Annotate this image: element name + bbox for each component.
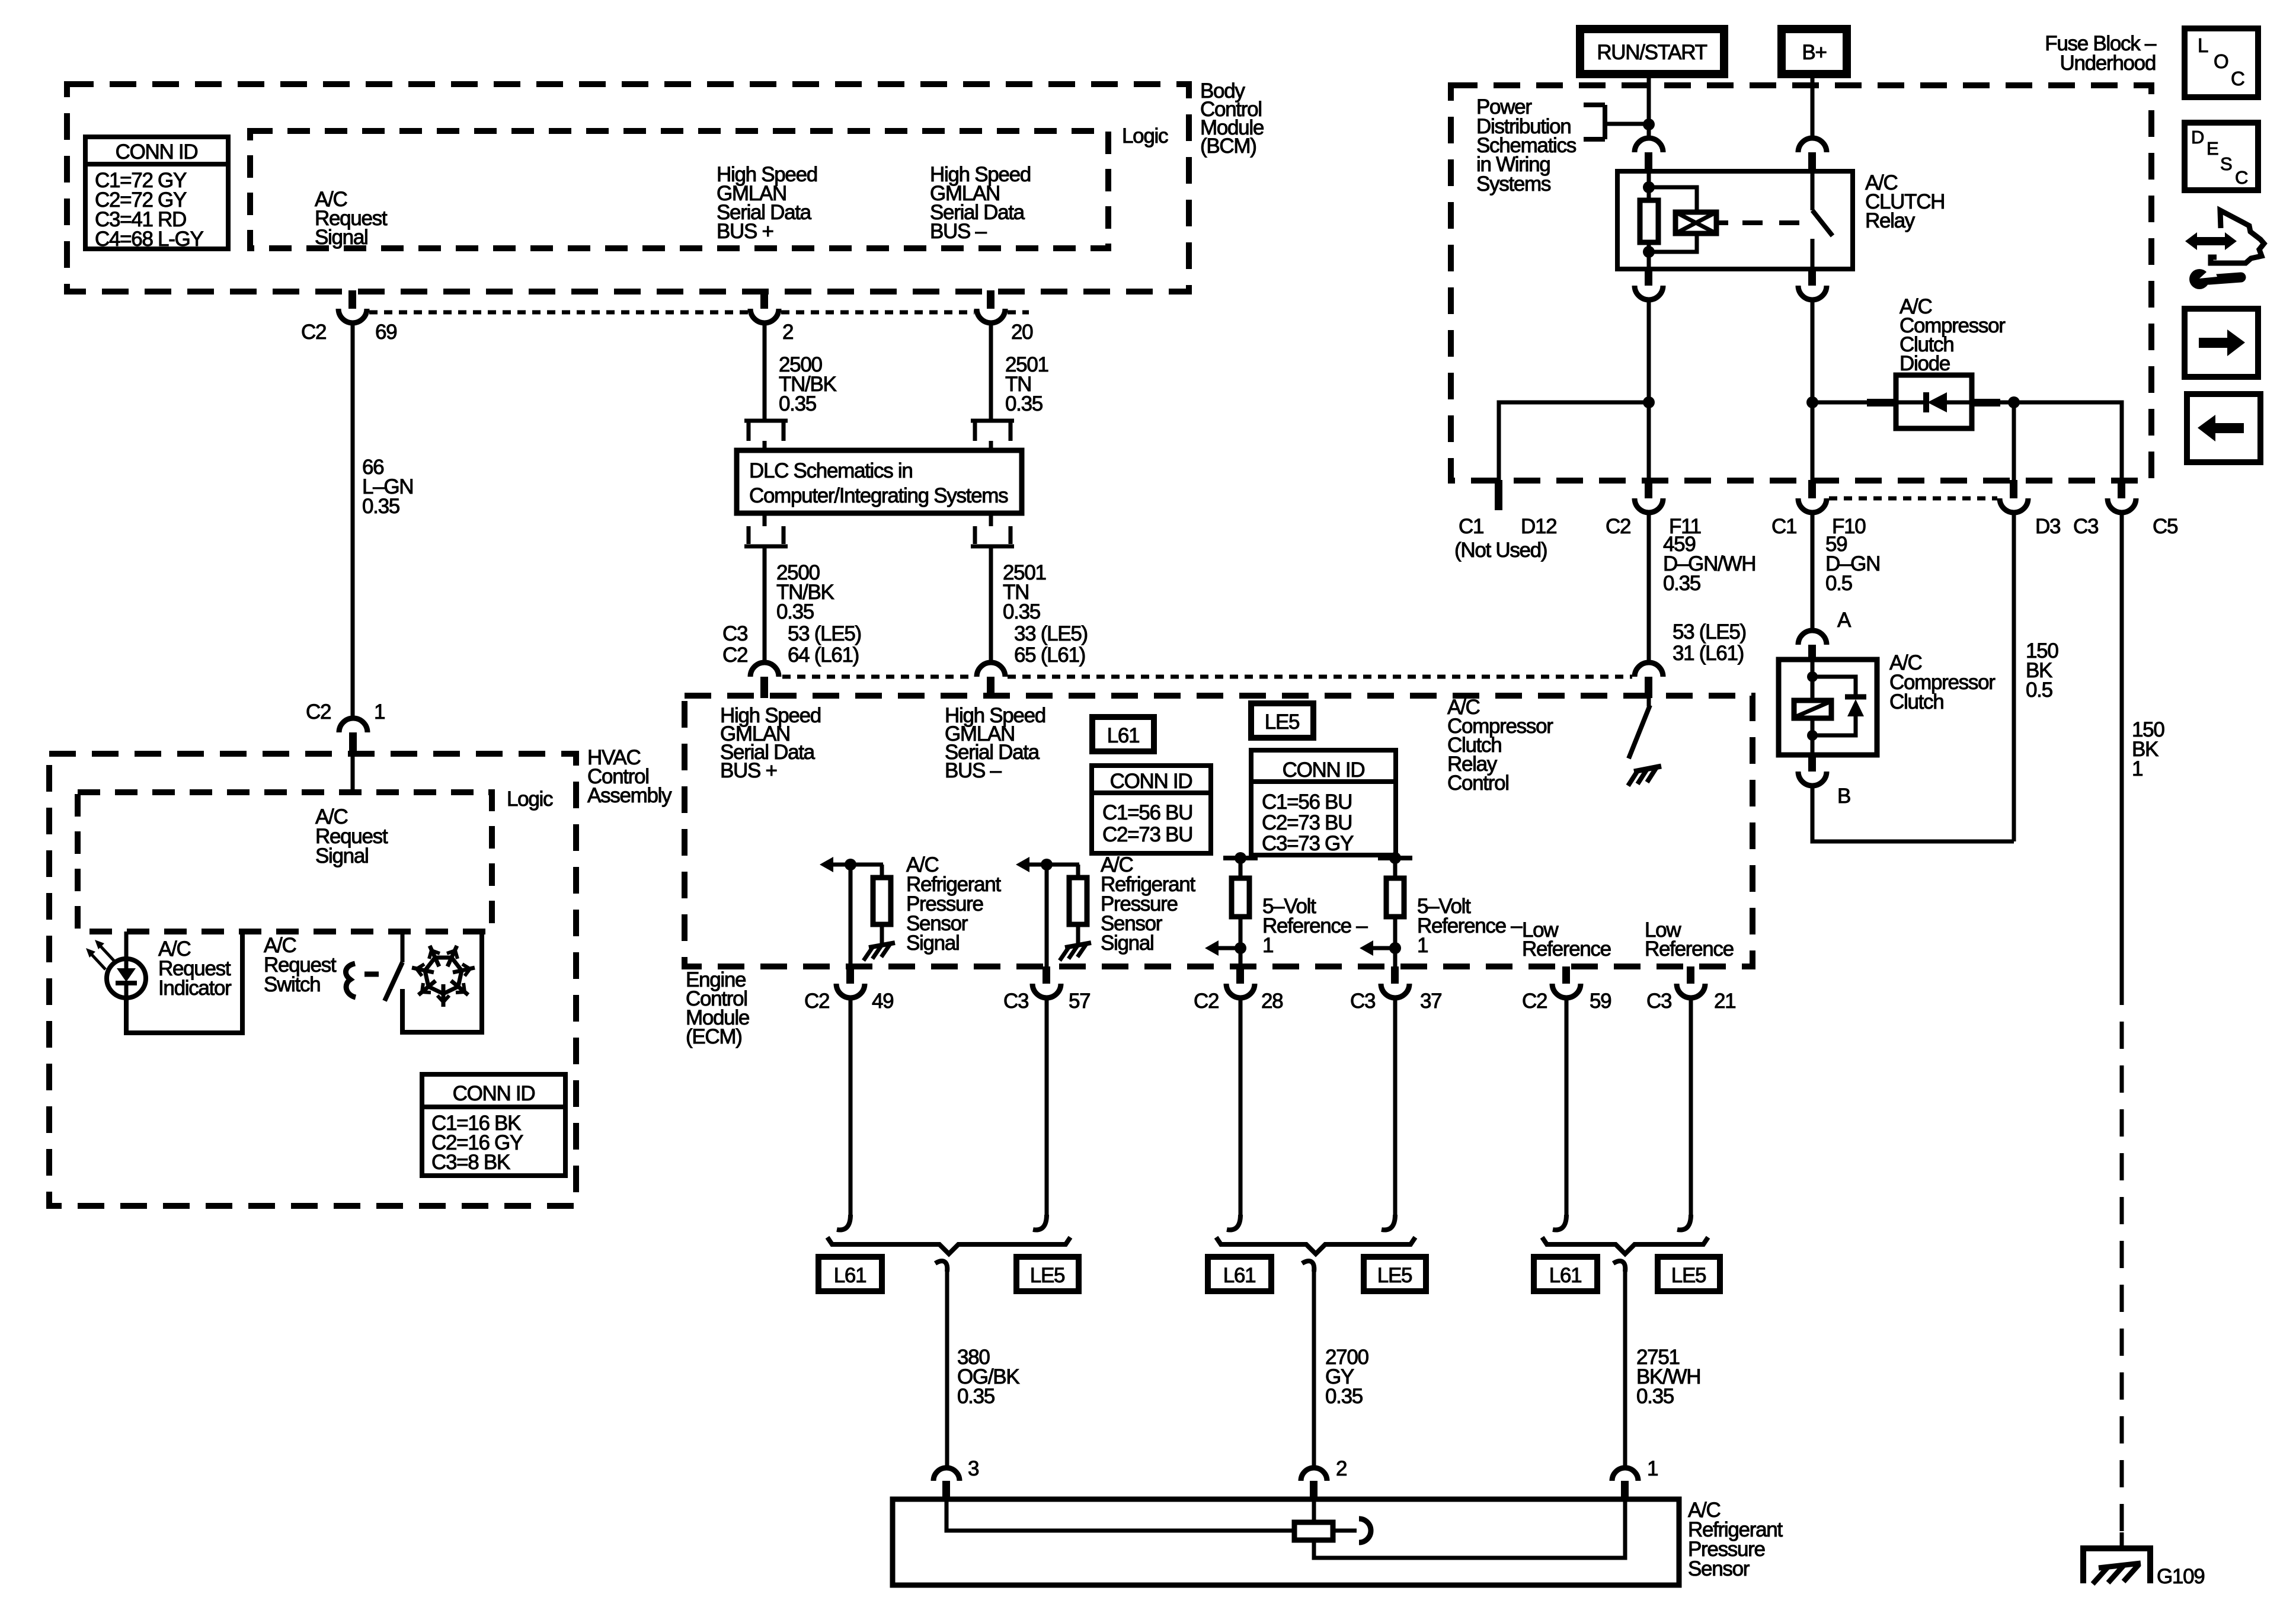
connector ECM BUS+ — [750, 662, 779, 698]
wire pin 57 — [1045, 865, 1049, 968]
connector HVAC C2-1 — [339, 718, 367, 754]
svg-text:Underhood: Underhood — [2060, 52, 2156, 75]
svg-text:53 (LE5): 53 (LE5) — [1673, 620, 1746, 644]
wire from pin 37 — [1382, 998, 1395, 1230]
svg-text:CONN ID: CONN ID — [1110, 770, 1192, 793]
svg-text:1: 1 — [1417, 934, 1428, 957]
svg-text:L61: L61 — [1223, 1264, 1256, 1287]
connector relay switch pin (bottom) — [1798, 269, 1827, 300]
connector relay switch pin (top) — [1798, 138, 1827, 172]
pin label C2 28 — [1194, 990, 1283, 1013]
relay switch fixed contact (bottom) — [1811, 239, 1815, 269]
svg-text:BUS +: BUS + — [717, 220, 773, 243]
wire 380 OG/BK merged — [935, 1261, 947, 1468]
node 5-Volt Reference 1 (pin 37) — [1417, 895, 1523, 957]
svg-text:Indicator: Indicator — [158, 977, 232, 1000]
wire clutch B return — [1812, 786, 2014, 841]
svg-text:C3=8 BK: C3=8 BK — [431, 1151, 510, 1174]
snowflake icon — [412, 946, 475, 1007]
label A/C Compressor Clutch — [1889, 651, 1996, 713]
CONN ID table (LE5) — [1251, 750, 1396, 855]
svg-text:(BCM): (BCM) — [1200, 135, 1256, 158]
svg-text:Reference –: Reference – — [1262, 914, 1368, 937]
ground comb (relay control) — [1628, 766, 1661, 786]
label A/C Request Indicator — [158, 937, 232, 1000]
label Fuse Block - Underhood — [2045, 32, 2157, 75]
wire from pin 49 — [837, 998, 850, 1230]
connector sensor pin 3 — [933, 1468, 960, 1500]
svg-text:Relay: Relay — [1865, 209, 1916, 232]
label Logic (BCM) — [1122, 124, 1168, 148]
switch fixed contact — [401, 932, 405, 962]
indicator return path — [126, 932, 242, 1033]
pin label C3 57 — [1003, 990, 1090, 1013]
icon box arrow right — [2185, 309, 2258, 377]
ECM relay control switch — [1629, 698, 1650, 758]
svg-text:Logic: Logic — [507, 788, 553, 811]
wire 150 BK 0.5 (D3 to clutch B) — [2012, 513, 2016, 841]
svg-text:Computer/Integrating Systems: Computer/Integrating Systems — [749, 484, 1008, 507]
inline connector bracket (below DLC, right) — [971, 513, 1014, 546]
svg-text:0.35: 0.35 — [957, 1385, 994, 1408]
junction diode branch — [1806, 396, 1818, 408]
node 5-Volt Reference 1 (pin 28) — [1262, 895, 1368, 957]
connector sensor pin 1 — [1612, 1468, 1638, 1500]
svg-text:C1=56 BU: C1=56 BU — [1262, 790, 1352, 814]
signal arrow (pin 49) — [820, 857, 883, 872]
svg-text:20: 20 — [1011, 321, 1033, 344]
logic box (HVAC inner dashed) — [78, 792, 492, 932]
inline connector bracket (above DLC, right) — [971, 421, 1014, 452]
svg-text:D12: D12 — [1521, 515, 1556, 538]
connector sensor pin 2 — [1301, 1468, 1327, 1500]
node A/C Request Signal (HVAC) — [315, 805, 388, 868]
wire label 2500 TN/BK 0.35 (lower) — [776, 561, 834, 623]
svg-text:C: C — [2231, 68, 2245, 89]
svg-text:C4=68 L-GY: C4=68 L-GY — [95, 228, 203, 251]
label A/C Request Switch — [264, 934, 337, 996]
resistor to ground (pin 57) — [1069, 865, 1087, 945]
svg-text:0.5: 0.5 — [1825, 572, 1852, 595]
wire 59 D-GN F10 to clutch A — [1811, 513, 1815, 630]
pin label A — [1837, 609, 1851, 632]
svg-text:C3: C3 — [722, 622, 747, 645]
engine tag LE5 (group 3) — [1658, 1257, 1720, 1291]
label A/C Compressor Clutch Diode — [1900, 295, 2006, 375]
svg-text:Signal: Signal — [906, 932, 960, 955]
junction relay coil bottom — [1643, 246, 1655, 258]
wire 2500 DLC to ECM — [763, 546, 767, 662]
wire 459 D-GN/WH F11 to ECM — [1647, 513, 1651, 662]
icon box arrow left — [2187, 394, 2260, 462]
wire clutch coil bottom — [1811, 718, 1815, 755]
svg-text:0.35: 0.35 — [1636, 1385, 1674, 1408]
svg-text:Switch: Switch — [264, 973, 320, 996]
power feed box B+ — [1782, 29, 1847, 74]
module box Fuse Block - Underhood (dashed) — [1451, 85, 2151, 481]
node Low Reference (pin 59) — [1522, 918, 1611, 961]
svg-text:Diode: Diode — [1900, 352, 1950, 375]
pin label 65 (L61) — [1014, 644, 1085, 667]
connector pin F10 — [1798, 480, 1827, 513]
engine tag L61 — [1092, 717, 1154, 751]
svg-text:Clutch: Clutch — [1889, 690, 1943, 713]
svg-text:C5: C5 — [2153, 515, 2177, 538]
switch arm A/C Request Switch — [385, 962, 402, 1001]
connector ECM relay control — [1635, 662, 1663, 698]
svg-text:1: 1 — [2132, 757, 2142, 780]
svg-text:DLC Schematics in: DLC Schematics in — [749, 459, 913, 482]
label HVAC Control Assembly — [587, 746, 672, 807]
wire label 2751 BK/WH 0.35 — [1636, 1346, 1700, 1408]
connector pin D12 (not used) — [1495, 480, 1502, 510]
svg-text:D: D — [2191, 127, 2204, 148]
node A/C Refrigerant Pressure Sensor Signal (pin 57) — [1101, 853, 1195, 955]
wire RUN/START feed — [1647, 74, 1651, 139]
svg-text:Systems: Systems — [1476, 172, 1551, 196]
wire label 150 BK 1 — [2132, 718, 2164, 780]
node A/C Refrigerant Pressure Sensor Signal (pin 49) — [906, 853, 1001, 955]
svg-text:CONN ID: CONN ID — [1283, 758, 1365, 782]
wire to D3 — [2012, 402, 2016, 480]
svg-text:0.5: 0.5 — [2026, 678, 2052, 702]
connector pin D3 — [2000, 480, 2028, 513]
wire BUS- BCM to DLC — [989, 323, 993, 421]
wire from pin 57 — [1033, 998, 1047, 1230]
svg-text:28: 28 — [1261, 990, 1283, 1013]
svg-text:D3: D3 — [2035, 515, 2060, 538]
svg-text:LE5: LE5 — [1377, 1264, 1412, 1287]
LED A/C Request Indicator — [107, 959, 146, 998]
sensor pressure port — [1333, 1519, 1371, 1542]
reference arrow (pin 37) — [1360, 940, 1401, 956]
wire 2501 DLC to ECM — [989, 546, 993, 662]
svg-text:59: 59 — [1590, 990, 1611, 1013]
junction D12 branch — [1643, 396, 1655, 408]
wire label 380 OG/BK 0.35 — [957, 1346, 1019, 1408]
connector pin C5 — [2108, 480, 2136, 513]
wire 2751 BK/WH merged — [1613, 1261, 1625, 1468]
splice brace (59/21) — [1542, 1237, 1708, 1254]
wire label 2501 TN 0.35 (lower) — [1003, 561, 1046, 623]
svg-text:C2=73 BU: C2=73 BU — [1262, 811, 1352, 834]
label Power Distribution Schematics in Wiring Systems — [1476, 95, 1576, 196]
node High Speed GMLAN Serial Data BUS + (ECM) — [720, 704, 821, 782]
wire label 66 L-GN 0.35 — [362, 456, 413, 518]
label A/C Refrigerant Pressure Sensor — [1688, 1499, 1783, 1580]
relay actuator dashed link — [1716, 220, 1803, 225]
connector relay coil pin (top) — [1635, 138, 1663, 172]
svg-text:C3: C3 — [1003, 990, 1028, 1013]
svg-text:31 (L61): 31 (L61) — [1673, 642, 1744, 665]
svg-text:BUS –: BUS – — [945, 759, 1002, 782]
svg-text:RUN/START: RUN/START — [1597, 41, 1707, 64]
junction D3/C5 — [2008, 396, 2020, 408]
svg-text:0.35: 0.35 — [1325, 1385, 1363, 1408]
wire label 2500 TN/BK 0.35 (upper) — [779, 353, 837, 415]
connector rail ECM row (dotted) — [782, 675, 1632, 679]
pin label C2 64 (L61) — [722, 644, 859, 667]
connector pin ECM 28 — [1226, 966, 1255, 998]
node High Speed GMLAN Serial Data BUS - (BCM) — [930, 163, 1031, 243]
wire label 59 D-GN 0.5 — [1825, 533, 1880, 595]
pin label C2 F11 — [1606, 515, 1701, 538]
inline connector bracket (above DLC, left) — [744, 421, 788, 452]
ground comb (pin 57) — [1060, 943, 1091, 961]
svg-text:BUS –: BUS – — [930, 220, 987, 243]
DLC Schematics box — [737, 450, 1022, 513]
svg-text:Signal: Signal — [1101, 932, 1154, 955]
wire to C5 — [2014, 402, 2122, 480]
svg-text:2: 2 — [1336, 1457, 1347, 1480]
svg-text:L61: L61 — [1549, 1264, 1582, 1287]
wire clutch coil top — [1811, 660, 1815, 700]
engine tag L61 (group 3) — [1534, 1257, 1597, 1291]
wire coil branch bottom — [1649, 233, 1697, 252]
engine tag LE5 — [1251, 703, 1313, 738]
svg-text:0.35: 0.35 — [1663, 572, 1700, 595]
relay box A/C CLUTCH Relay — [1617, 171, 1853, 269]
svg-text:0.35: 0.35 — [779, 392, 816, 415]
engine tag LE5 (group 2) — [1364, 1257, 1426, 1291]
resistor (pin 37) — [1386, 858, 1404, 948]
svg-text:2: 2 — [782, 321, 793, 344]
svg-text:LE5: LE5 — [1671, 1264, 1706, 1287]
pin label 20 — [1011, 321, 1033, 344]
wire diode output — [1972, 399, 2014, 406]
engine tag L61 (group 1) — [818, 1257, 882, 1291]
junction clutch coil top — [1807, 671, 1818, 682]
component box A/C Compressor Clutch — [1779, 660, 1877, 755]
svg-text:C3: C3 — [2073, 515, 2098, 538]
pin label C2 69 — [301, 321, 396, 344]
svg-text:0.35: 0.35 — [362, 495, 399, 518]
svg-text:BUS +: BUS + — [720, 759, 777, 782]
svg-text:(ECM): (ECM) — [686, 1025, 742, 1048]
svg-text:0.35: 0.35 — [1005, 392, 1043, 415]
resistor (pin 28) — [1232, 858, 1249, 948]
pin label 2 — [1336, 1457, 1347, 1480]
svg-text:C2: C2 — [722, 644, 747, 667]
pin label D3 C3 — [2035, 515, 2098, 538]
pin label 33 (LE5) — [1014, 622, 1088, 645]
svg-text:21: 21 — [1714, 990, 1735, 1013]
pin label 3 — [968, 1457, 978, 1480]
svg-text:65 (L61): 65 (L61) — [1014, 644, 1085, 667]
sensor internal wiring pin 3 — [946, 1499, 1296, 1531]
connector clutch pin A — [1798, 630, 1827, 661]
connector pin ECM 57 — [1032, 966, 1061, 998]
pin label C1 D12 — [1459, 515, 1556, 538]
svg-text:C2: C2 — [804, 990, 829, 1013]
svg-text:Logic: Logic — [1122, 124, 1168, 148]
wire label 2700 GY 0.35 — [1325, 1346, 1368, 1408]
svg-text:57: 57 — [1069, 990, 1090, 1013]
pin label C3 37 — [1350, 990, 1441, 1013]
svg-text:S: S — [2220, 153, 2233, 174]
wire 2700 GY merged — [1302, 1261, 1314, 1468]
relay coil symbol (box with X) — [1675, 212, 1716, 233]
diode symbol — [1896, 392, 1972, 412]
svg-text:53 (LE5): 53 (LE5) — [788, 622, 861, 645]
svg-text:C3=73 GY: C3=73 GY — [1262, 832, 1354, 855]
junction power distribution tap — [1643, 119, 1655, 130]
label A/C CLUTCH Relay — [1865, 171, 1945, 232]
wire label 459 D-GN/WH 0.35 — [1663, 533, 1755, 595]
svg-text:C1=56 BU: C1=56 BU — [1102, 801, 1192, 824]
svg-text:LE5: LE5 — [1265, 710, 1299, 734]
svg-text:69: 69 — [375, 321, 396, 344]
label Logic (HVAC) — [507, 788, 553, 811]
svg-text:A: A — [1837, 609, 1851, 632]
svg-text:C3: C3 — [1350, 990, 1375, 1013]
signal arrow (pin 57) — [1016, 857, 1079, 872]
power feed box RUN/START — [1580, 29, 1724, 74]
pin label C1 F10 — [1771, 515, 1866, 538]
pin label C3 53 (LE5) — [722, 622, 861, 645]
svg-text:C2: C2 — [1606, 515, 1630, 538]
pin label 1 — [1647, 1457, 1658, 1480]
wire label 150 BK 0.5 — [2026, 639, 2058, 702]
svg-text:O: O — [2214, 50, 2229, 72]
wire pin 37 — [1393, 948, 1398, 968]
resistor to ground (pin 49) — [873, 865, 891, 945]
svg-text:E: E — [2207, 138, 2219, 159]
svg-text:L61: L61 — [1107, 724, 1140, 747]
svg-text:G109: G109 — [2157, 1565, 2204, 1588]
relay switch fixed contact (top) — [1811, 171, 1815, 210]
svg-text:B: B — [1837, 785, 1850, 808]
connector pin BCM 2 — [750, 290, 779, 323]
svg-text:Signal: Signal — [315, 844, 369, 868]
snowflake box — [402, 932, 482, 1032]
svg-text:CONN ID: CONN ID — [116, 140, 198, 164]
svg-text:1: 1 — [374, 700, 385, 724]
wire 66 L-GN 0.35 — [351, 323, 355, 718]
connector pin BCM C2-69 — [338, 290, 367, 323]
wire A/C request into logic — [351, 754, 355, 792]
module box Engine Control Module ECM (dashed) — [685, 696, 1753, 966]
ground comb (pin 49) — [864, 943, 895, 961]
switch actuator dash — [364, 972, 379, 977]
connector rail C2 (dotted) — [369, 311, 1029, 315]
svg-text:Reference: Reference — [1522, 937, 1611, 961]
wire relay coil top — [1647, 171, 1651, 201]
pin label C2 1 — [306, 700, 385, 724]
svg-text:37: 37 — [1420, 990, 1441, 1013]
wire relay coil bottom — [1647, 242, 1651, 269]
svg-text:0.35: 0.35 — [776, 600, 814, 623]
node A/C Request Signal (BCM) — [315, 188, 388, 249]
connector relay coil pin (bottom) — [1635, 269, 1663, 300]
wire label 2501 TN 0.35 (upper) — [1005, 353, 1048, 415]
svg-text:C2=73 BU: C2=73 BU — [1102, 823, 1192, 846]
splice brace (49/57) — [827, 1237, 1070, 1254]
svg-text:1: 1 — [1262, 934, 1273, 957]
node High Speed GMLAN Serial Data BUS - (ECM) — [945, 704, 1045, 782]
svg-text:C2: C2 — [1522, 990, 1547, 1013]
svg-text:B+: B+ — [1802, 41, 1826, 64]
component box A/C Refrigerant Pressure Sensor — [893, 1499, 1679, 1585]
icon box DESC — [2185, 123, 2258, 190]
icon arrows-and-wrench — [2185, 210, 2264, 289]
svg-text:3: 3 — [968, 1457, 978, 1480]
svg-text:Sensor: Sensor — [1688, 1557, 1750, 1580]
svg-text:C2: C2 — [301, 321, 326, 344]
connector ECM BUS- — [977, 662, 1005, 698]
svg-text:Reference –: Reference – — [1417, 914, 1523, 937]
CONN ID table (L61) — [1092, 766, 1211, 853]
svg-text:L61: L61 — [834, 1264, 866, 1287]
wire from pin 59 — [1553, 998, 1566, 1230]
svg-text:C2: C2 — [306, 700, 331, 724]
ground G109 — [2083, 1548, 2150, 1584]
LED emission arrows — [86, 940, 114, 969]
wire from pin 28 — [1227, 998, 1240, 1230]
module box BCM (dashed) — [67, 84, 1189, 292]
node High Speed GMLAN Serial Data BUS + (BCM) — [717, 163, 817, 243]
pin label C5 — [2153, 515, 2177, 538]
wire LED branch — [124, 932, 129, 960]
engine tag LE5 (group 1) — [1016, 1257, 1079, 1291]
5V reference bar (pin 28) — [1223, 852, 1258, 864]
connector pin ECM 49 — [836, 966, 865, 998]
connector clutch pin B — [1798, 755, 1827, 786]
svg-text:C1: C1 — [1771, 515, 1796, 538]
svg-text:64 (L61): 64 (L61) — [788, 644, 859, 667]
svg-text:C2: C2 — [1194, 990, 1219, 1013]
wire branch to D12 — [1499, 402, 1649, 480]
module box HVAC Control Assembly (dashed) — [49, 754, 576, 1206]
wire B+ feed — [1811, 74, 1815, 139]
logic box (BCM inner dashed) — [250, 131, 1108, 248]
CONN ID table (BCM) — [85, 137, 228, 251]
svg-text:Assembly: Assembly — [587, 784, 672, 807]
junction clutch coil bottom — [1807, 730, 1818, 741]
clutch coil symbol — [1794, 700, 1831, 718]
connector pin F11 — [1635, 480, 1663, 513]
wire pin 28 — [1239, 948, 1243, 968]
connector pin ECM 37 — [1381, 966, 1409, 998]
svg-text:C: C — [2235, 167, 2248, 188]
wire from pin 21 — [1677, 998, 1691, 1230]
node Low Reference (pin 21) — [1645, 918, 1734, 961]
svg-text:L: L — [2198, 34, 2208, 56]
pin label C2 49 — [804, 990, 893, 1013]
bracket to Power Distribution Schematics — [1584, 105, 1649, 139]
pin label 2 — [782, 321, 793, 344]
label (Not Used) — [1454, 539, 1547, 562]
inline connector bracket (below DLC, left) — [744, 513, 788, 546]
pin label B — [1837, 785, 1850, 808]
svg-text:Signal: Signal — [315, 226, 368, 249]
svg-text:CONN ID: CONN ID — [453, 1082, 535, 1105]
pin label C3 21 — [1646, 990, 1735, 1013]
wire to clutch diode — [1812, 399, 1898, 406]
svg-text:Control: Control — [1447, 772, 1509, 795]
label A/C Compressor Clutch Relay Control — [1447, 696, 1553, 795]
label Body Control Module (BCM) — [1200, 79, 1264, 158]
switch actuator brace — [346, 964, 356, 997]
svg-text:1: 1 — [1647, 1457, 1658, 1480]
svg-text:C1: C1 — [1459, 515, 1483, 538]
svg-text:0.35: 0.35 — [1003, 600, 1040, 623]
junction relay coil top — [1643, 181, 1655, 193]
CONN ID table (HVAC) — [422, 1074, 565, 1176]
diode box A/C Compressor Clutch Diode — [1896, 375, 1972, 428]
relay switch arm — [1812, 210, 1833, 236]
wire relay switch to F10 — [1811, 300, 1815, 480]
